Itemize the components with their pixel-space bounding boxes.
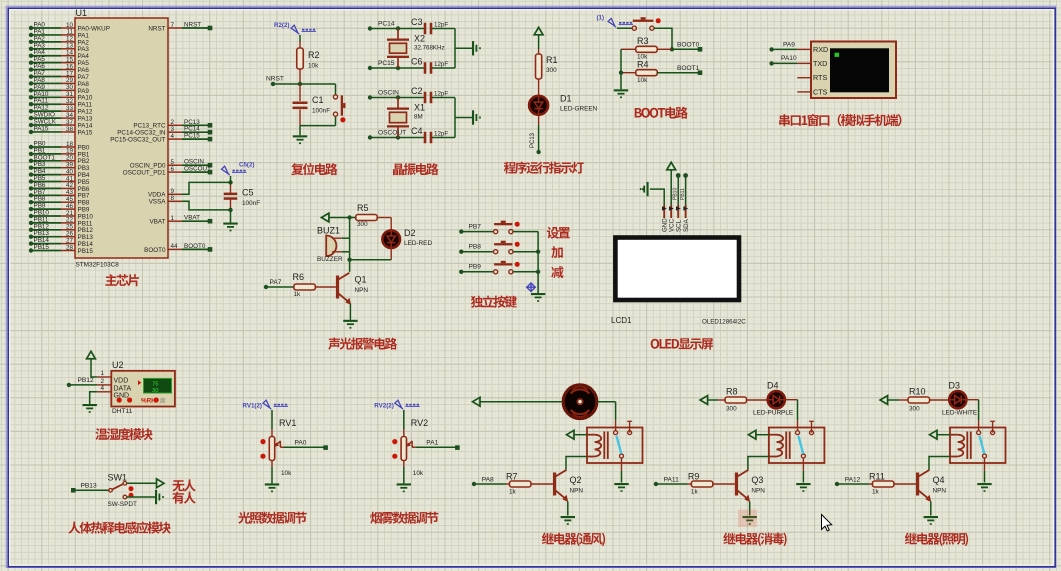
svg-text:PB15: PB15 bbox=[34, 244, 50, 251]
svg-text:NRST: NRST bbox=[148, 25, 165, 32]
svg-text:D3: D3 bbox=[949, 381, 961, 391]
svg-text:38: 38 bbox=[66, 126, 74, 133]
svg-text:LED-GREEN: LED-GREEN bbox=[560, 106, 598, 113]
svg-text:OSCOUT_PD1: OSCOUT_PD1 bbox=[123, 170, 166, 177]
svg-text:PB11: PB11 bbox=[680, 188, 686, 200]
svg-text:BOOT1: BOOT1 bbox=[677, 65, 700, 72]
svg-text:28: 28 bbox=[66, 244, 74, 251]
svg-text:OLED12864I2C: OLED12864I2C bbox=[702, 319, 746, 326]
svg-text:PC14: PC14 bbox=[378, 21, 395, 28]
svg-text:C2: C2 bbox=[411, 86, 423, 96]
svg-text:LED-PURPLE: LED-PURPLE bbox=[753, 410, 793, 417]
svg-text:PB8: PB8 bbox=[469, 243, 482, 250]
svg-text:NRST: NRST bbox=[266, 76, 284, 83]
svg-text:VDD: VDD bbox=[114, 378, 129, 385]
svg-text:Q1: Q1 bbox=[355, 275, 367, 285]
svg-text:PC15-OSC32_OUT: PC15-OSC32_OUT bbox=[110, 137, 165, 144]
svg-text:NPN: NPN bbox=[355, 287, 369, 294]
svg-text:RV1: RV1 bbox=[279, 418, 296, 428]
svg-text:VSSA: VSSA bbox=[149, 199, 167, 206]
svg-text:7: 7 bbox=[171, 22, 175, 29]
svg-text:100nF: 100nF bbox=[312, 108, 330, 115]
svg-text:CTS: CTS bbox=[813, 87, 828, 96]
svg-text:12pF: 12pF bbox=[434, 131, 448, 138]
svg-text:SW-SPDT: SW-SPDT bbox=[108, 501, 137, 508]
svg-text:C6: C6 bbox=[411, 57, 423, 67]
svg-text:12pF: 12pF bbox=[434, 91, 448, 98]
svg-text:(1): (1) bbox=[597, 15, 605, 22]
svg-text:R10: R10 bbox=[909, 387, 926, 397]
svg-text:R1: R1 bbox=[546, 55, 558, 65]
svg-text:R4: R4 bbox=[637, 59, 649, 69]
svg-text:STM32F103C8: STM32F103C8 bbox=[76, 262, 120, 269]
svg-text:PB7: PB7 bbox=[469, 223, 482, 230]
svg-text:BUZZER: BUZZER bbox=[317, 256, 343, 263]
svg-text:R7: R7 bbox=[506, 472, 518, 482]
svg-text:300: 300 bbox=[726, 406, 737, 413]
svg-text:LED-RED: LED-RED bbox=[404, 240, 432, 247]
svg-text:8: 8 bbox=[171, 195, 175, 202]
svg-text:NRST: NRST bbox=[184, 22, 201, 29]
svg-text:BUZ1: BUZ1 bbox=[317, 226, 340, 236]
svg-text:4: 4 bbox=[100, 385, 104, 392]
svg-text:D2: D2 bbox=[404, 228, 416, 238]
svg-text:PB15: PB15 bbox=[78, 248, 94, 255]
svg-text:LCD1: LCD1 bbox=[611, 316, 632, 325]
svg-text:C5(2): C5(2) bbox=[239, 162, 254, 169]
svg-text:PC15: PC15 bbox=[378, 60, 395, 67]
svg-text:Q2: Q2 bbox=[570, 475, 582, 485]
svg-text:1k: 1k bbox=[691, 489, 699, 496]
svg-text:PB10: PB10 bbox=[673, 188, 679, 200]
svg-text:PC15: PC15 bbox=[184, 133, 200, 140]
svg-text:SW1: SW1 bbox=[108, 473, 128, 483]
svg-text:NPN: NPN bbox=[933, 488, 947, 495]
svg-text:44: 44 bbox=[171, 243, 179, 250]
svg-text:PA12: PA12 bbox=[845, 477, 861, 484]
svg-text:PA15: PA15 bbox=[34, 125, 49, 132]
svg-text:RV1(2): RV1(2) bbox=[243, 403, 263, 410]
svg-text:Q4: Q4 bbox=[933, 475, 945, 485]
svg-text:30: 30 bbox=[152, 388, 158, 394]
svg-text:VBAT: VBAT bbox=[184, 215, 200, 222]
svg-text:U1: U1 bbox=[76, 8, 88, 18]
svg-text:C5: C5 bbox=[242, 188, 254, 198]
svg-text:GND: GND bbox=[114, 392, 130, 399]
svg-text:1: 1 bbox=[171, 215, 175, 222]
svg-text:PA7: PA7 bbox=[270, 279, 282, 286]
svg-text:NPN: NPN bbox=[751, 488, 765, 495]
svg-text:DHT11: DHT11 bbox=[112, 408, 133, 415]
svg-text:VBAT: VBAT bbox=[150, 219, 166, 226]
svg-text:OSCOUT: OSCOUT bbox=[184, 166, 211, 173]
svg-text:300: 300 bbox=[357, 221, 368, 228]
svg-text:300: 300 bbox=[909, 406, 920, 413]
svg-text:OSCOUT: OSCOUT bbox=[378, 130, 406, 137]
svg-text:300: 300 bbox=[546, 67, 557, 74]
svg-text:1k: 1k bbox=[294, 291, 302, 298]
svg-text:PC13: PC13 bbox=[530, 132, 536, 148]
svg-text:PA15: PA15 bbox=[78, 129, 93, 136]
svg-text:Q3: Q3 bbox=[751, 475, 763, 485]
svg-text:C3: C3 bbox=[411, 17, 423, 27]
svg-text:PA10: PA10 bbox=[781, 55, 797, 62]
svg-text:R11: R11 bbox=[869, 472, 885, 482]
svg-text:R9: R9 bbox=[688, 472, 700, 482]
svg-text:R8: R8 bbox=[726, 387, 738, 397]
svg-text:1k: 1k bbox=[872, 489, 880, 496]
svg-text:12pF: 12pF bbox=[434, 61, 448, 68]
svg-text:1k: 1k bbox=[509, 489, 517, 496]
svg-text:PA8: PA8 bbox=[482, 477, 494, 484]
svg-text:RXD: RXD bbox=[813, 45, 828, 54]
svg-text:SCL: SCL bbox=[675, 219, 682, 232]
svg-text:32.768KHz: 32.768KHz bbox=[414, 45, 445, 52]
svg-text:PA1: PA1 bbox=[426, 440, 438, 447]
svg-text:PA9: PA9 bbox=[783, 42, 795, 49]
svg-text:100nF: 100nF bbox=[242, 200, 260, 207]
svg-text:RV2(2): RV2(2) bbox=[374, 403, 394, 410]
svg-text:75: 75 bbox=[152, 381, 158, 387]
svg-text:VDDA: VDDA bbox=[148, 192, 166, 199]
svg-text:4: 4 bbox=[171, 133, 175, 140]
svg-text:C1: C1 bbox=[312, 95, 324, 105]
svg-text:6: 6 bbox=[171, 166, 175, 173]
svg-text:10k: 10k bbox=[637, 77, 648, 84]
svg-text:TXD: TXD bbox=[813, 59, 827, 68]
svg-text:R3: R3 bbox=[637, 36, 649, 46]
svg-text:BOOT0: BOOT0 bbox=[677, 42, 700, 49]
svg-text:R2: R2 bbox=[308, 50, 320, 60]
svg-text:NPN: NPN bbox=[570, 488, 584, 495]
svg-text:VCC: VCC bbox=[668, 218, 675, 232]
svg-text:10k: 10k bbox=[413, 470, 424, 477]
svg-text:9: 9 bbox=[171, 188, 175, 195]
svg-text:RTS: RTS bbox=[813, 73, 827, 82]
svg-text:R5: R5 bbox=[357, 203, 369, 213]
svg-text:PB12: PB12 bbox=[78, 377, 94, 384]
svg-text:10k: 10k bbox=[308, 63, 319, 70]
svg-text:X1: X1 bbox=[414, 103, 425, 113]
svg-text:GND: GND bbox=[661, 218, 668, 232]
svg-text:10k: 10k bbox=[281, 470, 292, 477]
svg-text:R2(2): R2(2) bbox=[274, 22, 289, 29]
svg-text:1: 1 bbox=[100, 370, 104, 377]
svg-text:C4: C4 bbox=[411, 126, 423, 136]
svg-text:PB13: PB13 bbox=[81, 483, 97, 490]
svg-text:8M: 8M bbox=[414, 114, 423, 121]
svg-text:D1: D1 bbox=[560, 94, 572, 104]
svg-text:PA11: PA11 bbox=[664, 477, 679, 484]
svg-text:SDA: SDA bbox=[683, 218, 690, 232]
svg-text:U2: U2 bbox=[112, 360, 124, 370]
svg-text:12pF: 12pF bbox=[434, 22, 448, 29]
svg-text:X2: X2 bbox=[414, 34, 425, 44]
svg-text:D4: D4 bbox=[767, 381, 779, 391]
svg-text:BOOT0: BOOT0 bbox=[184, 243, 206, 250]
svg-text:OSCIN: OSCIN bbox=[378, 90, 399, 97]
svg-text:PB9: PB9 bbox=[469, 264, 482, 271]
svg-text:R6: R6 bbox=[293, 272, 305, 282]
svg-text:RV2: RV2 bbox=[411, 418, 428, 428]
svg-text:BOOT0: BOOT0 bbox=[144, 247, 166, 254]
svg-text:LED-WHITE: LED-WHITE bbox=[942, 409, 977, 416]
svg-text:PA0: PA0 bbox=[295, 440, 307, 447]
